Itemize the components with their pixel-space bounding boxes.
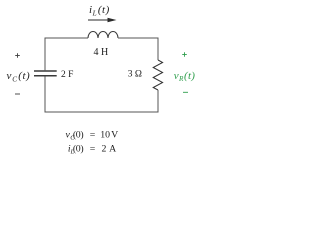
svg-text:=: =: [90, 144, 96, 155]
svg-text:(0): (0): [73, 129, 83, 140]
wire bottom: [45, 111, 159, 113]
wire right upper: [157, 38, 159, 61]
wire top-right: [118, 37, 159, 39]
svg-text:(0): (0): [73, 144, 83, 155]
svg-text:10: 10: [100, 129, 110, 140]
minus sign capacitor: [15, 93, 20, 95]
resistor R1 3 ohm: [153, 60, 162, 90]
current arrow i_L: [88, 18, 117, 23]
svg-text:2: 2: [102, 144, 107, 155]
plus sign capacitor: [15, 53, 20, 58]
initial condition i_L(0) = 2 A: [68, 144, 116, 156]
initial condition v_C(0) = 10 V: [66, 129, 119, 141]
inductor L1 4 H: [88, 32, 118, 38]
wire left lower: [44, 76, 46, 113]
wire top-left: [45, 37, 88, 39]
svg-text:iL(t): iL(t): [89, 4, 110, 17]
svg-text:vR(t): vR(t): [174, 70, 196, 83]
svg-text:A: A: [109, 144, 116, 155]
svg-text:V: V: [111, 129, 118, 140]
minus sign resistor (green): [183, 91, 188, 93]
plus sign resistor (green): [182, 52, 187, 57]
svg-text:=: =: [90, 129, 96, 140]
svg-text:2 F: 2 F: [61, 70, 73, 80]
svg-text:3 Ω: 3 Ω: [128, 70, 142, 80]
wire left upper: [44, 38, 46, 72]
wire right lower: [157, 90, 159, 113]
capacitor C1 2 F plates: [34, 71, 57, 76]
svg-text:vC(t): vC(t): [7, 70, 31, 83]
svg-text:4 H: 4 H: [94, 47, 109, 58]
